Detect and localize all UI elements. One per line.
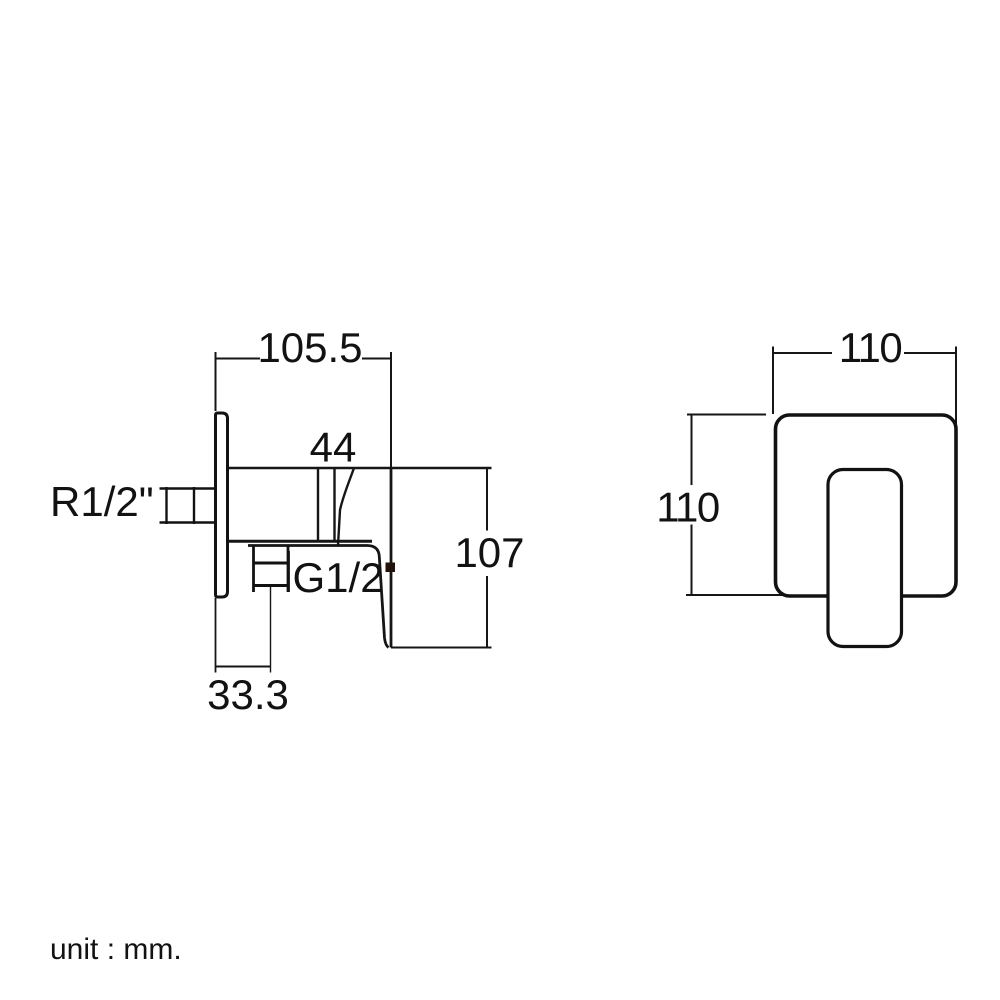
110 top left extension (772, 347, 774, 415)
dimension 107 line (486, 468, 488, 648)
R1/2 inlet stub (160, 487, 215, 524)
svg-text:unit : mm.: unit : mm. (50, 933, 182, 966)
svg-text:105.5: 105.5 (257, 324, 362, 371)
cartridge line 2 (333, 468, 335, 542)
dimension 110 top line (773, 352, 956, 354)
dimension 105.5 right extension / handle outer edge upper (390, 352, 392, 468)
handle neck curve (338, 468, 354, 546)
handle grip (side view) (287, 551, 290, 592)
svg-text:110: 110 (656, 484, 719, 531)
110 left bottom extension (686, 594, 830, 596)
110 left top extension (687, 414, 766, 416)
body top edge (also 107 top extension) (229, 467, 492, 469)
cartridge line 1 (317, 468, 319, 542)
dimension 33.3 line (216, 666, 272, 668)
body bottom edge (229, 540, 372, 543)
mark square (386, 563, 396, 573)
wall plate (side view) (216, 413, 228, 597)
110 top right extension (955, 347, 957, 428)
outlet centre leader / 33.3 right extension (270, 586, 272, 673)
svg-text:107: 107 (454, 529, 524, 576)
107 bottom extension / handle bottom (391, 647, 492, 649)
handle (front view) (828, 470, 902, 647)
handle lever outer edge (390, 468, 393, 648)
svg-text:33.3: 33.3 (207, 671, 289, 718)
dimension 110 left line (691, 414, 693, 595)
svg-text:R1/2": R1/2" (50, 478, 154, 525)
svg-text:44: 44 (310, 424, 357, 471)
G1/2 outlet (254, 546, 289, 593)
svg-text:G1/2: G1/2 (293, 554, 384, 601)
dimension 105.5 line (216, 358, 392, 360)
dimension 105.5 left extension (215, 352, 217, 411)
svg-text:110: 110 (839, 324, 902, 371)
front plate (front view) (776, 415, 957, 596)
33.3 left extension (215, 598, 217, 673)
